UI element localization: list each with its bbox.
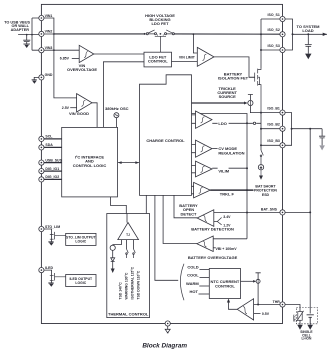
svg-text:VIN GOOD: VIN GOOD — [69, 111, 89, 116]
transistor battery isolation FET — [249, 68, 261, 113]
op-amp VILIM — [196, 161, 213, 177]
svg-text:ISO_S1: ISO_S1 — [268, 13, 280, 17]
wire AGND ground symbol — [165, 326, 170, 333]
svg-text:THR: THR — [273, 300, 281, 304]
wire 6.85V reference to comparator — [72, 57, 79, 59]
capacitor input C at adapter — [23, 35, 30, 44]
node VIN2 internal — [53, 33, 55, 35]
wire ISO_S external bracket — [285, 19, 327, 50]
pin ISO_B1 — [280, 110, 285, 115]
node battery detection sense junction — [246, 212, 248, 214]
svg-text:VILIM: VILIM — [218, 169, 229, 174]
ground battery — [307, 325, 313, 330]
wire HOT — [199, 293, 210, 295]
svg-text:ISO_S2: ISO_S2 — [268, 28, 280, 32]
box NTC CURRENT CONTROL — [209, 269, 240, 299]
pin SDA — [39, 145, 44, 150]
node VILIM sense junction — [246, 167, 248, 169]
node ISO_B2 internal — [260, 128, 262, 130]
node VIN bus junction — [31, 34, 33, 36]
wire battery detection input and BAT_SNS row — [214, 212, 280, 214]
svg-text:3.4V: 3.4V — [223, 215, 231, 219]
wire trickle source taps — [248, 95, 261, 113]
svg-text:VIN3: VIN3 — [45, 46, 53, 50]
arrow thermal current out — [111, 269, 115, 274]
svg-text:2.5V: 2.5V — [62, 106, 70, 110]
wire battery overvoltage ref input — [213, 247, 215, 249]
node LDO sense junction — [246, 122, 248, 124]
svg-text:CONTROL LOGIC: CONTROL LOGIC — [73, 163, 107, 168]
svg-text:BATTERY DETECTION: BATTERY DETECTION — [191, 226, 234, 231]
pin ISO_S3 — [280, 47, 285, 52]
wire battery overvoltage upper input — [213, 238, 247, 240]
wire VIN LIMIT output to isolation FET gate — [214, 57, 255, 77]
ground GND pin solid — [32, 81, 37, 84]
svg-text:WARNING 130°C: WARNING 130°C — [125, 272, 129, 299]
switch battery detect — [261, 150, 263, 164]
wire BAT_SNS to battery rail — [285, 211, 310, 213]
wire THR row — [254, 304, 280, 306]
box THERMAL CONTROL — [107, 214, 150, 318]
node ISO_S3 internal — [260, 49, 262, 51]
svg-text:NTC: NTC — [292, 314, 296, 322]
wire LDO FET control to logic — [103, 62, 144, 128]
wire VILIM output row to sense rail — [212, 167, 247, 169]
svg-text:ILED: ILED — [45, 266, 53, 270]
svg-text:ISOTHERMAL 115°C: ISOTHERMAL 115°C — [131, 266, 135, 299]
wire internal VIN stub bus — [44, 18, 77, 98]
wire ISO_S internal bus — [261, 19, 280, 68]
svg-text:ESD: ESD — [262, 193, 270, 197]
ground system load cap — [305, 54, 311, 60]
arrow NTC box to bias source — [253, 280, 256, 283]
svg-text:LOGIC: LOGIC — [75, 281, 86, 285]
node system load cap — [307, 33, 309, 35]
wire main VIN rail — [54, 33, 283, 35]
svg-text:LOAD: LOAD — [302, 28, 313, 33]
box ILED OUTPUT LOGIC — [66, 275, 96, 287]
svg-text:Li-ION: Li-ION — [301, 337, 312, 341]
wire CV output — [212, 148, 217, 150]
arrow trickle control — [244, 102, 248, 105]
node rail to VIN LIMIT — [193, 33, 195, 35]
svg-text:TSD DOWN 110°C: TSD DOWN 110°C — [137, 270, 141, 299]
svg-text:HOT: HOT — [190, 289, 199, 294]
wire USB_SUS — [44, 162, 62, 164]
pin ISO_B3 — [280, 143, 285, 148]
wire ISO_B external bracket — [285, 113, 322, 146]
ground battery cap — [319, 145, 325, 150]
dashed box battery pack — [296, 308, 317, 324]
switch thermal B — [134, 249, 136, 258]
current source NTC bias — [256, 273, 261, 305]
wire LDO output row with label gap — [212, 122, 247, 124]
op-amp thermal sensor (up pointing) — [118, 223, 139, 240]
svg-text:DETECT: DETECT — [181, 211, 198, 216]
svg-text:0.5V: 0.5V — [262, 312, 270, 316]
wire thermal internals — [113, 240, 134, 249]
svg-text:SDA: SDA — [45, 143, 53, 147]
wire TRKL inputs — [192, 186, 194, 194]
ground NTC — [297, 325, 303, 330]
svg-text:VIN LIMIT: VIN LIMIT — [179, 56, 196, 60]
wire VIN GOOD output — [92, 103, 97, 128]
wire 2.5V reference to VIN GOOD — [70, 107, 76, 109]
pin USB_SUS — [39, 160, 44, 165]
node BAT_SNS battery rail — [309, 211, 311, 213]
arrow into NTC box — [227, 299, 230, 303]
wire 0.5V ref — [254, 313, 261, 315]
transistor STO_LIM open-drain FET — [50, 232, 66, 240]
transistor blocking FET B — [166, 30, 174, 34]
wire trickle control (thick) — [192, 102, 246, 104]
svg-text:WARM: WARM — [186, 281, 199, 286]
wire STO_LIM pin to FET — [44, 229, 52, 242]
ground input cap solid — [24, 45, 29, 48]
switch thermal A — [127, 249, 129, 258]
oscillator 380kHz — [114, 113, 119, 118]
arrow battery detect sink — [259, 176, 263, 180]
svg-text:ADAPTER: ADAPTER — [11, 28, 30, 32]
svg-text:SCL: SCL — [45, 135, 53, 139]
svg-text:SOURCE: SOURCE — [219, 94, 236, 99]
wire THR comparator output to NTC box — [229, 302, 238, 310]
capacitor system load — [305, 34, 312, 53]
pin ISO_S1 — [280, 16, 285, 21]
svg-text:GND: GND — [45, 73, 53, 77]
wire LDO FET control feed — [193, 34, 197, 53]
wire LDO amp upper input to battery sense rail — [192, 114, 248, 124]
svg-text:LOGIC: LOGIC — [75, 240, 86, 244]
op-amp battery overvoltage (left pointing) — [197, 236, 213, 252]
capacitor battery side — [319, 129, 325, 146]
svg-text:ISO_B2: ISO_B2 — [267, 123, 280, 127]
svg-text:6.85V: 6.85V — [60, 57, 70, 61]
wire COLD — [200, 269, 210, 271]
wire COOL — [200, 277, 210, 279]
wire CV inputs — [192, 144, 196, 152]
wire DIG_IO2 — [44, 178, 62, 180]
svg-text:DIG_IO2: DIG_IO2 — [45, 175, 59, 179]
wire LDO CV upper inputs — [192, 115, 196, 123]
svg-text:TJ: TJ — [126, 233, 130, 237]
ground ILED solid — [49, 284, 54, 287]
wire THR to NTC — [285, 305, 300, 312]
node rail left FET — [144, 33, 146, 35]
brace NTC fanout — [180, 264, 184, 300]
pin DIG_IO1 — [39, 169, 44, 174]
svg-text:TSD 140°C: TSD 140°C — [119, 282, 123, 300]
svg-text:CONTROL: CONTROL — [215, 283, 235, 288]
wire SDA — [44, 146, 62, 148]
wire VIN3 row to overvoltage comparator — [54, 49, 79, 51]
pin ISO_B2 — [280, 126, 285, 131]
current source battery detect — [258, 165, 263, 170]
pin center dots — [41, 17, 43, 19]
wire charge control to battery open detect — [174, 195, 197, 217]
svg-text:DIG_IO1: DIG_IO1 — [45, 167, 59, 171]
svg-text:COOL: COOL — [187, 272, 199, 277]
pin BAT_SNS — [280, 210, 285, 215]
wire thermal amp feed — [126, 214, 128, 223]
op-amp VIN GOOD comparator — [77, 94, 92, 112]
wire DIG_IO1 — [44, 170, 62, 172]
wire NTC box to bias source — [241, 280, 255, 282]
svg-text:VIN1: VIN1 — [45, 14, 53, 18]
svg-text:BATTERY OVERVOLTAGE: BATTERY OVERVOLTAGE — [188, 255, 238, 260]
pin STO_LIM — [39, 226, 44, 231]
wire VILIM inputs — [192, 165, 196, 172]
wire oscillator to logic — [115, 118, 117, 128]
wire ILED pin to FET — [44, 270, 52, 283]
ground at input cap — [23, 43, 30, 45]
wire charge control to overvoltage comparator output — [163, 195, 197, 243]
wire SCL — [44, 138, 62, 140]
svg-text:COLD: COLD — [187, 264, 198, 269]
node system load bracket — [292, 33, 294, 35]
wire TRKL output (thick) — [210, 189, 253, 191]
ground STO_LIM FET — [48, 241, 53, 243]
pin ISO_S2 — [280, 32, 285, 37]
arrow to system load — [323, 33, 327, 36]
op-amp LDO regulation — [196, 111, 213, 128]
op-amp TRKL F — [194, 182, 211, 198]
battery single cell — [307, 315, 314, 325]
op-amp CV MODE regulation — [196, 140, 213, 157]
svg-text:LDO: LDO — [218, 121, 226, 126]
thermistor NTC — [298, 312, 302, 321]
transistor blocking FET A — [147, 30, 155, 34]
wire VIN LIMIT label input — [172, 61, 198, 63]
box CHARGE CONTROL stepped outline — [140, 75, 192, 196]
diode thermal — [111, 258, 115, 269]
svg-text:ISO_B1: ISO_B1 — [267, 106, 280, 110]
pin GND — [39, 75, 44, 80]
pin SCL — [39, 136, 44, 141]
pin ILED — [39, 268, 44, 273]
box I2C INTERFACE AND CONTROL LOGIC — [62, 127, 118, 196]
switch battery detection threshold — [214, 218, 222, 225]
current source trickle — [248, 100, 253, 105]
box LDO FET CONTROL — [144, 52, 172, 67]
svg-text:BAT_SNS: BAT_SNS — [261, 208, 278, 212]
wire ISO_B internal bus — [261, 113, 280, 151]
node battery bracket — [291, 128, 293, 130]
op-amp THR comparator (left pointing) — [237, 299, 253, 320]
box STO_LIM OUTPUT LOGIC — [66, 233, 96, 245]
svg-text:VIN2: VIN2 — [45, 30, 53, 34]
current source thermal — [110, 245, 115, 250]
wire charge control to thermal — [145, 195, 147, 213]
node ISO_B1 internal — [260, 112, 262, 114]
wire I2C to charge control arrows — [118, 162, 139, 164]
wire sense rail vertical — [246, 123, 248, 239]
wire GND pin to external ground — [32, 77, 39, 79]
wire charge control to NTC brace — [155, 195, 178, 280]
svg-text:USB_SUS: USB_SUS — [45, 158, 62, 162]
wire external VIN bus — [18, 18, 39, 50]
switch battery sense — [247, 122, 261, 124]
node VIN3 internal — [53, 49, 55, 51]
svg-text:ISO_B3: ISO_B3 — [267, 139, 280, 143]
wire WARM — [199, 285, 209, 287]
svg-text:ISOLATION FET: ISOLATION FET — [218, 76, 249, 81]
svg-text:REGULATION: REGULATION — [218, 150, 244, 155]
svg-text:380kHz OSC: 380kHz OSC — [105, 106, 129, 111]
node ISO_S2 internal — [260, 33, 262, 35]
pin VIN3 — [39, 48, 44, 53]
transistor ILED open-drain FET — [50, 273, 66, 281]
node rail right FET — [173, 33, 175, 35]
svg-text:CONTROL: CONTROL — [148, 59, 168, 64]
node battery top — [309, 128, 311, 130]
pin VIN1 — [39, 15, 44, 20]
ground ILED FET — [48, 282, 53, 284]
op-amp VIN LIMIT comparator — [197, 47, 214, 66]
svg-text:ISO_S3: ISO_S3 — [268, 44, 280, 48]
node THR sense junction — [257, 304, 259, 306]
node ISO_B3 internal — [260, 144, 262, 146]
IC boundary — [41, 4, 282, 323]
svg-text:THERMAL CONTROL: THERMAL CONTROL — [108, 311, 149, 316]
svg-text:OVERVOLTAGE: OVERVOLTAGE — [67, 67, 97, 72]
wire FET gates common — [155, 35, 166, 53]
node TRKL sense crossing — [246, 189, 248, 191]
svg-text:Block Diagram: Block Diagram — [142, 343, 187, 350]
wire overvoltage output — [94, 53, 144, 55]
svg-text:STO_LIM: STO_LIM — [45, 225, 60, 229]
pin AGND — [165, 321, 170, 326]
pin DIG_IO2 — [39, 177, 44, 182]
pin THR — [280, 302, 285, 307]
wire I2C logic to thermal control — [110, 197, 126, 214]
pin VIN2 — [39, 31, 44, 36]
node input cap junction — [26, 34, 28, 36]
svg-text:CHARGE CONTROL: CHARGE CONTROL — [146, 138, 185, 143]
op-amp VIN OVERVOLTAGE comparator — [79, 45, 94, 62]
wire battery rail — [309, 129, 311, 314]
svg-text:LDO FET: LDO FET — [151, 21, 169, 26]
svg-text:TRKL F: TRKL F — [220, 191, 235, 196]
ground STO_LIM solid — [49, 243, 54, 246]
op-amp battery detection (left pointing) — [197, 210, 214, 227]
svg-text:VBI + 100mV: VBI + 100mV — [216, 247, 238, 251]
